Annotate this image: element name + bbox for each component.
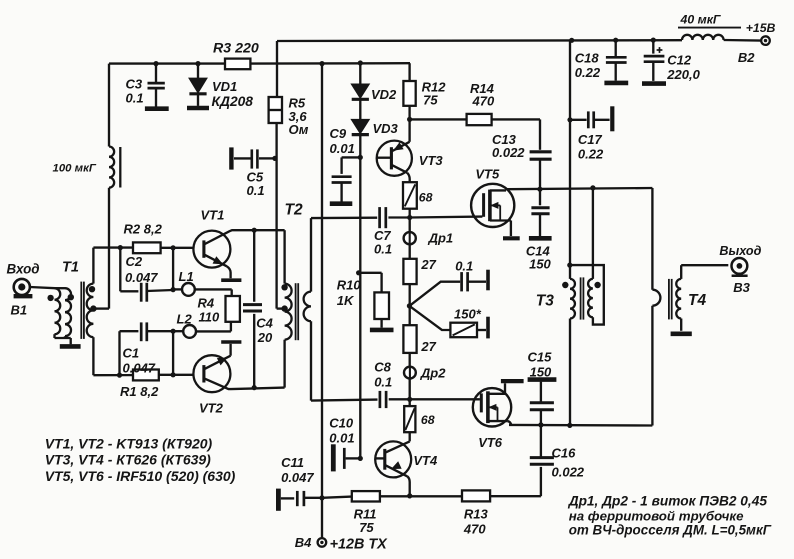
svg-text:68: 68 (421, 413, 435, 427)
svg-text:C17: C17 (578, 132, 603, 147)
svg-text:T3: T3 (536, 292, 554, 309)
svg-text:0.047: 0.047 (123, 360, 156, 375)
svg-text:R2 8,2: R2 8,2 (124, 222, 163, 237)
svg-text:на ферритовой трубочке: на ферритовой трубочке (569, 508, 744, 523)
svg-text:27: 27 (420, 257, 436, 272)
svg-text:+12B TX: +12B TX (330, 537, 389, 553)
svg-text:C10: C10 (329, 415, 354, 430)
svg-text:C9: C9 (330, 126, 347, 141)
svg-text:40 мкГ: 40 мкГ (680, 12, 721, 26)
svg-text:C3: C3 (126, 77, 143, 92)
svg-text:VT4: VT4 (413, 453, 438, 468)
svg-text:B4: B4 (295, 535, 312, 550)
svg-text:0.01: 0.01 (329, 430, 354, 445)
svg-text:VT1, VT2 - KT913 (КТ920): VT1, VT2 - KT913 (КТ920) (45, 436, 213, 452)
svg-text:0.047: 0.047 (281, 470, 314, 485)
svg-text:0.022: 0.022 (552, 465, 585, 480)
svg-text:от ВЧ-дросселя ДМ. L=0,5мкГ: от ВЧ-дросселя ДМ. L=0,5мкГ (569, 523, 772, 538)
svg-text:Выход: Выход (719, 244, 761, 258)
svg-text:+15B: +15B (746, 21, 776, 35)
svg-text:VT1: VT1 (201, 207, 225, 222)
svg-text:VT3: VT3 (419, 153, 444, 168)
svg-text:L2: L2 (177, 312, 193, 327)
svg-text:75: 75 (423, 92, 438, 107)
svg-text:Др1, Др2 - 1 виток ПЭВ2 0,45: Др1, Др2 - 1 виток ПЭВ2 0,45 (568, 493, 768, 508)
svg-text:0.01: 0.01 (330, 141, 355, 156)
svg-text:0.22: 0.22 (578, 146, 604, 161)
svg-text:150: 150 (529, 256, 551, 271)
svg-text:0.22: 0.22 (575, 65, 601, 80)
svg-text:0.1: 0.1 (126, 91, 144, 106)
svg-text:VT3, VT4 - КТ626 (КТ639): VT3, VT4 - КТ626 (КТ639) (45, 452, 211, 468)
svg-text:C11: C11 (281, 455, 304, 470)
svg-text:0.1: 0.1 (247, 183, 265, 198)
svg-text:Др1: Др1 (428, 230, 454, 245)
svg-text:100 мкГ: 100 мкГ (53, 163, 97, 175)
svg-text:B2: B2 (738, 50, 755, 65)
svg-text:C15: C15 (528, 350, 553, 365)
svg-text:VT6: VT6 (478, 435, 503, 450)
svg-text:0.022: 0.022 (492, 145, 525, 160)
svg-text:0.047: 0.047 (125, 270, 158, 285)
svg-text:VT2: VT2 (199, 400, 224, 415)
svg-text:470: 470 (472, 93, 495, 108)
svg-text:0.1: 0.1 (455, 258, 473, 273)
svg-text:VD2: VD2 (371, 87, 397, 102)
svg-text:VT5: VT5 (475, 166, 500, 181)
svg-text:C18: C18 (575, 50, 600, 65)
svg-text:110: 110 (199, 310, 220, 325)
svg-text:T4: T4 (688, 292, 706, 309)
svg-text:C4: C4 (256, 315, 273, 330)
svg-text:R3 220: R3 220 (213, 41, 259, 57)
svg-text:20: 20 (257, 330, 273, 345)
svg-text:1K: 1K (337, 293, 355, 308)
svg-text:T1: T1 (62, 259, 79, 275)
svg-text:0.1: 0.1 (374, 241, 392, 256)
svg-text:VD1: VD1 (212, 79, 237, 94)
svg-text:0.1: 0.1 (374, 375, 392, 390)
svg-text:R10: R10 (337, 277, 362, 292)
svg-text:68: 68 (419, 190, 433, 204)
svg-text:C1: C1 (123, 345, 140, 360)
svg-text:B3: B3 (733, 280, 750, 295)
svg-text:27: 27 (420, 339, 436, 354)
svg-text:T2: T2 (285, 202, 303, 219)
svg-text:75: 75 (359, 520, 374, 535)
svg-text:150: 150 (530, 364, 552, 379)
svg-text:Ом: Ом (289, 122, 309, 137)
svg-text:C16: C16 (552, 445, 577, 460)
svg-text:470: 470 (463, 522, 486, 537)
svg-text:VD3: VD3 (373, 121, 399, 136)
svg-text:R13: R13 (464, 506, 489, 521)
svg-text:220,0: 220,0 (666, 67, 700, 82)
svg-text:150*: 150* (454, 306, 482, 321)
svg-text:C8: C8 (374, 360, 391, 375)
svg-text:L1: L1 (179, 269, 194, 284)
svg-text:Др2: Др2 (420, 365, 446, 380)
svg-text:VT5, VT6 - IRF510 (520) (630): VT5, VT6 - IRF510 (520) (630) (45, 468, 236, 484)
svg-text:C12: C12 (667, 52, 692, 67)
svg-text:Вход: Вход (7, 261, 40, 276)
svg-text:R1 8,2: R1 8,2 (120, 384, 159, 399)
svg-text:R4: R4 (198, 295, 215, 310)
svg-text:КД208: КД208 (212, 94, 254, 109)
svg-text:C2: C2 (126, 254, 143, 269)
svg-text:B1: B1 (11, 302, 28, 317)
